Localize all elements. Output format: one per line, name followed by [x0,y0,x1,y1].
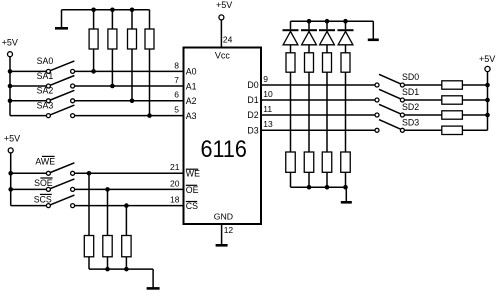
svg-text:5: 5 [174,105,179,115]
svg-text:OE: OE [186,185,199,195]
svg-text:21: 21 [170,162,180,172]
svg-text:SOE: SOE [34,178,53,188]
svg-text:6116: 6116 [200,135,246,162]
svg-text:D2: D2 [247,110,258,120]
svg-text:SA0: SA0 [37,56,54,66]
svg-text:20: 20 [170,178,180,188]
svg-text:24: 24 [223,34,233,44]
svg-text:18: 18 [170,195,180,205]
svg-text:+5V: +5V [479,54,495,64]
svg-text:D3: D3 [247,126,258,136]
svg-text:SD2: SD2 [402,102,419,112]
svg-text:SA3: SA3 [37,100,54,110]
svg-text:9: 9 [263,74,268,84]
svg-text:11: 11 [263,104,272,114]
svg-text:SD1: SD1 [402,87,419,97]
svg-text:+5V: +5V [216,0,232,10]
svg-text:7: 7 [174,75,179,85]
svg-text:A3: A3 [186,111,197,121]
svg-text:SD0: SD0 [402,72,419,82]
svg-text:10: 10 [263,89,273,99]
svg-text:8: 8 [174,60,179,70]
svg-text:A1: A1 [186,81,197,91]
svg-text:GND: GND [214,212,233,222]
svg-text:+5V: +5V [2,38,18,48]
svg-text:AWE: AWE [35,157,55,167]
svg-text:+5V: +5V [4,134,20,144]
svg-text:6: 6 [174,90,179,100]
svg-text:CS: CS [186,201,198,211]
svg-text:13: 13 [263,119,273,129]
svg-text:WE: WE [186,169,200,179]
svg-text:SD3: SD3 [402,117,419,127]
svg-text:D0: D0 [247,80,258,90]
svg-text:SA1: SA1 [37,71,54,81]
svg-text:D1: D1 [247,95,258,105]
svg-text:12: 12 [224,225,234,235]
svg-text:A0: A0 [186,67,197,77]
svg-text:A2: A2 [186,96,197,106]
svg-text:Vcc: Vcc [215,51,231,61]
svg-text:SCS: SCS [34,194,52,204]
svg-text:SA2: SA2 [37,86,54,96]
